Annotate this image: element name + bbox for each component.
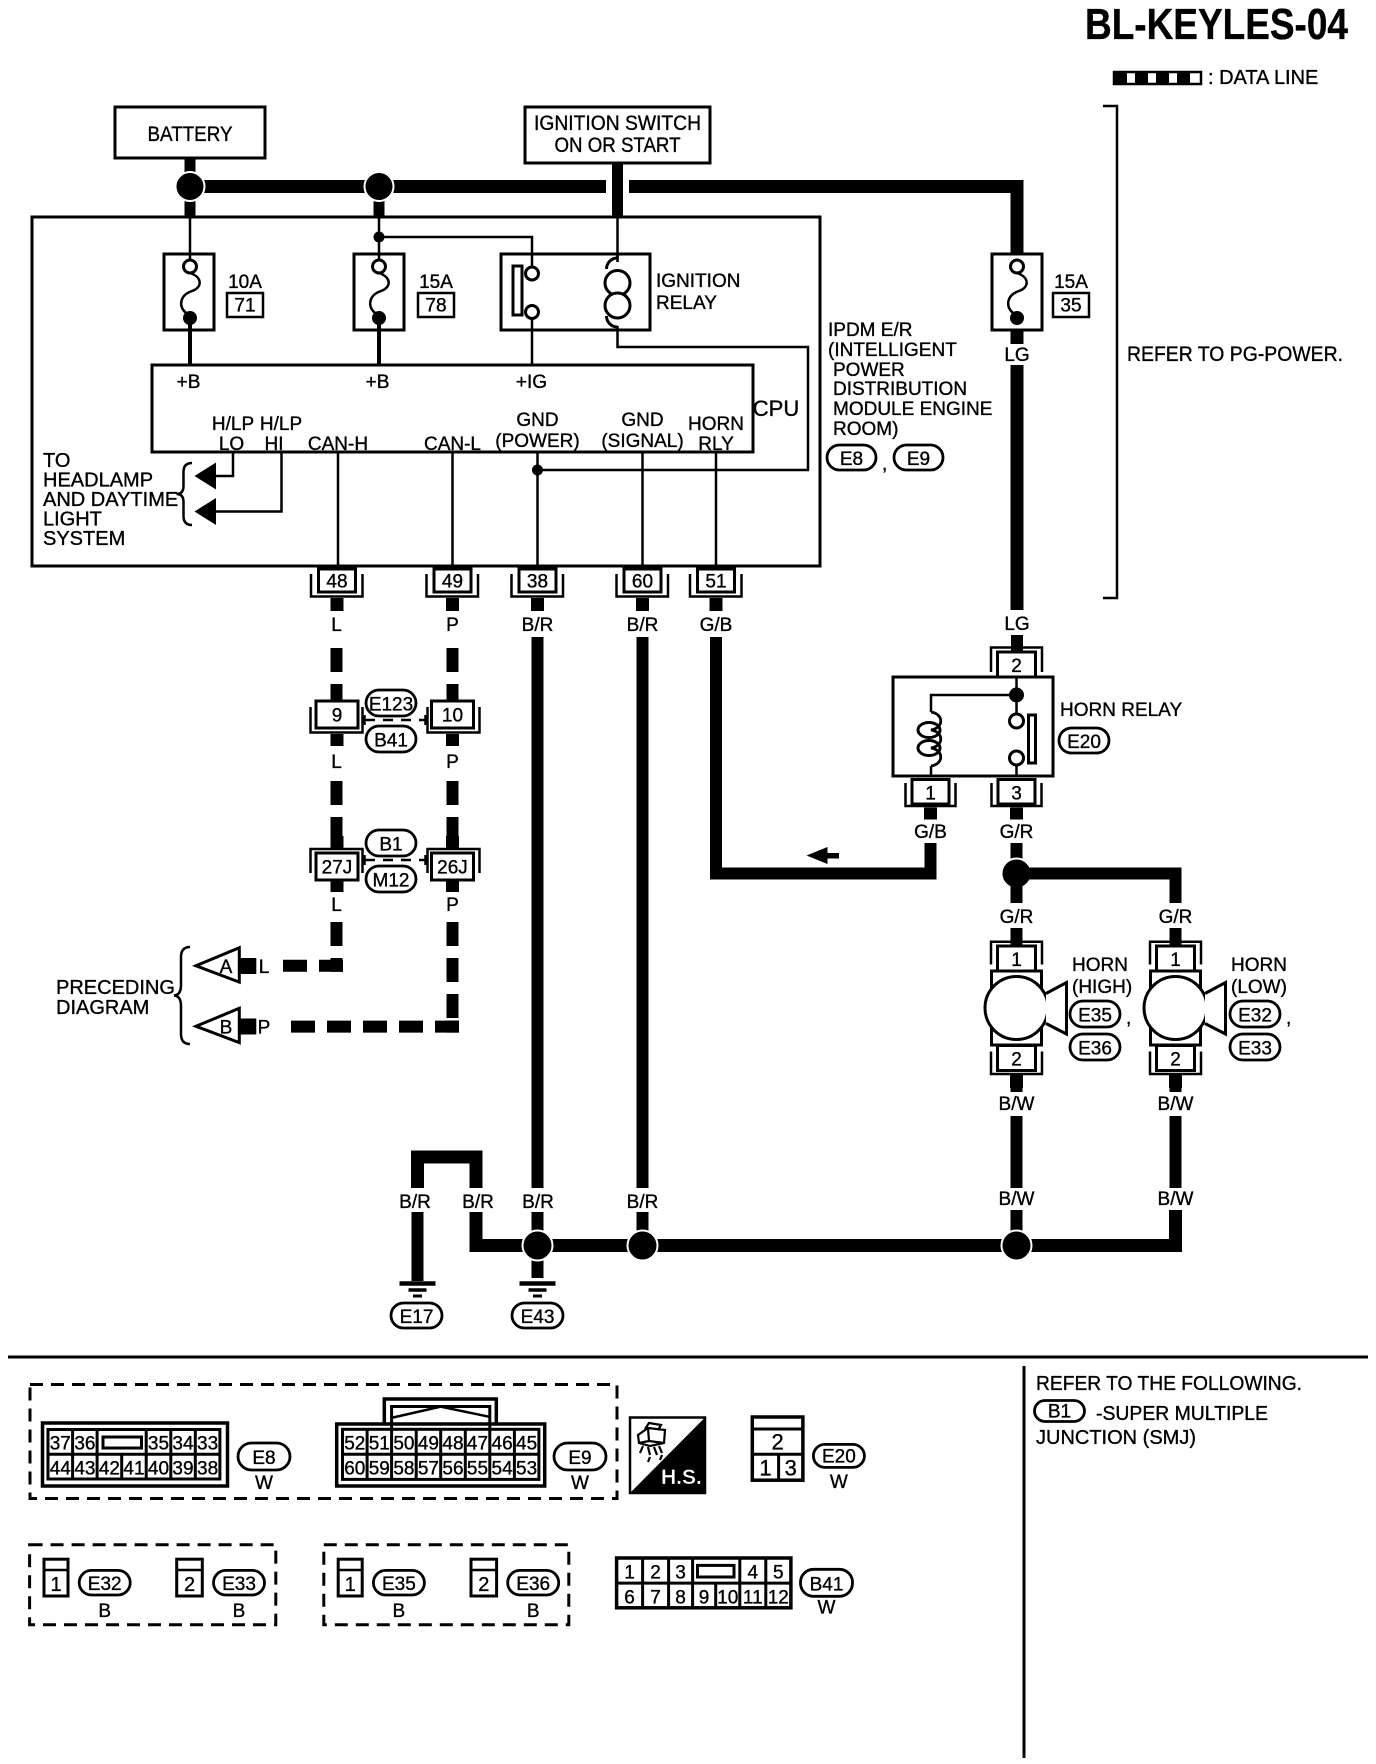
- connector oval E35: [1070, 1001, 1120, 1027]
- svg-text:B1: B1: [379, 835, 402, 856]
- svg-text:1: 1: [50, 1574, 61, 1596]
- svg-text:4: 4: [748, 1563, 759, 1584]
- svg-text:1: 1: [1011, 950, 1022, 971]
- svg-text:2: 2: [1011, 656, 1022, 677]
- wire main power bus left: [190, 180, 606, 193]
- wire G/R stub horn high: [1011, 928, 1023, 946]
- connector 9 (E123/B41): [311, 701, 363, 746]
- connector pin 2 horn relay: [991, 648, 1042, 678]
- svg-text:E32: E32: [1238, 1006, 1272, 1027]
- svg-text:W: W: [830, 1472, 848, 1493]
- brace preceding diagram: [174, 947, 190, 1044]
- svg-text:H/LP: H/LP: [260, 414, 302, 435]
- svg-text:2: 2: [771, 1430, 783, 1455]
- connector oval E123: [366, 690, 416, 716]
- svg-text:REFER TO PG-POWER.: REFER TO PG-POWER.: [1127, 343, 1343, 366]
- wire feed to fuse 71: [189, 217, 192, 260]
- svg-text:+B: +B: [177, 372, 201, 393]
- svg-text:52: 52: [344, 1434, 365, 1455]
- wire CAN-H pin to connector 48: [337, 452, 340, 566]
- connector oval E9 (face): [554, 1443, 606, 1494]
- svg-text:HORN: HORN: [1231, 955, 1287, 976]
- svg-text:(SIGNAL): (SIGNAL): [601, 431, 683, 452]
- svg-text:34: 34: [172, 1434, 194, 1455]
- svg-text:27J: 27J: [322, 858, 353, 879]
- svg-text:+B: +B: [366, 372, 390, 393]
- junction dot horn high B/W: [1002, 1231, 1032, 1261]
- wire GND SIGNAL pin to connector 60: [641, 452, 644, 566]
- connector pin 38: [512, 569, 564, 611]
- wire ignition switch to relay coil: [616, 217, 619, 262]
- svg-text:57: 57: [418, 1459, 439, 1480]
- fuse number box 71: [227, 293, 263, 317]
- wire G/R below junction: [1011, 881, 1023, 903]
- svg-text:10: 10: [717, 1588, 738, 1609]
- svg-text:1: 1: [759, 1456, 771, 1481]
- wire B/W horn high upper: [1011, 1088, 1023, 1092]
- svg-text:REFER TO THE FOLLOWING.: REFER TO THE FOLLOWING.: [1036, 1373, 1302, 1395]
- svg-text:58: 58: [393, 1459, 414, 1480]
- junction dot G/R: [1002, 859, 1032, 889]
- svg-text:5: 5: [773, 1563, 784, 1584]
- svg-text:78: 78: [425, 296, 446, 317]
- connector oval E36 (face): [508, 1570, 559, 1622]
- svg-text:8: 8: [675, 1588, 686, 1609]
- svg-text:L: L: [331, 752, 342, 773]
- svg-text:B/W: B/W: [999, 1094, 1035, 1115]
- svg-text:P: P: [258, 1018, 271, 1039]
- svg-text:(LOW): (LOW): [1231, 977, 1287, 998]
- svg-text:11: 11: [743, 1588, 763, 1609]
- svg-text:10A: 10A: [228, 272, 262, 293]
- svg-text:L: L: [331, 895, 342, 916]
- wire G/R stub horn low: [1170, 928, 1182, 946]
- svg-text:E36: E36: [516, 1574, 550, 1595]
- svg-text:E35: E35: [1078, 1006, 1112, 1027]
- connector oval E43: [512, 1303, 563, 1328]
- connector face E32 pin1: [44, 1559, 68, 1596]
- svg-text:E9: E9: [907, 449, 930, 470]
- svg-text:E123: E123: [369, 695, 413, 716]
- svg-text:47: 47: [467, 1434, 488, 1455]
- data line L upper: [331, 648, 343, 701]
- connector oval E20 (relay): [1059, 728, 1109, 753]
- svg-text:E20: E20: [1067, 732, 1101, 753]
- horn (low): [1144, 942, 1226, 1088]
- arrow on G/B wire: [807, 847, 828, 864]
- wire HORN RLY pin to connector 51: [715, 452, 718, 566]
- SECTION: IPDM E/R outer box: [32, 217, 820, 566]
- horn (high): [985, 942, 1067, 1088]
- connector pin 1 horn relay: [906, 780, 956, 820]
- svg-text:3: 3: [1011, 784, 1022, 805]
- svg-text:35: 35: [148, 1434, 169, 1455]
- svg-text:G/R: G/R: [1000, 822, 1034, 843]
- svg-text:,: ,: [1286, 1008, 1291, 1029]
- connector 10 (E123/B41): [428, 701, 480, 746]
- connector oval E33 (face): [214, 1570, 265, 1622]
- brace headlamp: [177, 463, 193, 525]
- svg-text:H.S.: H.S.: [661, 1466, 702, 1489]
- connector oval E35 (face): [373, 1570, 424, 1622]
- wire GND POWER pin to connector 38: [536, 452, 539, 566]
- svg-text:B: B: [220, 1018, 233, 1039]
- ground E17: [400, 1284, 436, 1297]
- battery B+ box: [115, 107, 265, 158]
- svg-text:E9: E9: [568, 1448, 591, 1469]
- label TO HEADLAMP AND DAYTIME LIGHT SYSTEM: [43, 450, 178, 550]
- fuse number box 78: [418, 293, 454, 317]
- svg-text:SYSTEM: SYSTEM: [43, 528, 125, 550]
- svg-text:9: 9: [699, 1588, 710, 1609]
- ignition switch box: [525, 107, 710, 163]
- svg-text:B/R: B/R: [462, 1192, 494, 1213]
- wire main power bus right with corner to fuse 35: [629, 187, 1017, 255]
- connector oval B41 (face): [801, 1569, 853, 1618]
- svg-text:E8: E8: [840, 449, 863, 470]
- svg-text:CPU: CPU: [753, 396, 799, 421]
- svg-text:LO: LO: [219, 434, 244, 455]
- svg-text:DISTRIBUTION: DISTRIBUTION: [833, 379, 967, 400]
- wire LG stub below fuse 35: [1011, 330, 1024, 344]
- svg-text:P: P: [446, 752, 459, 773]
- svg-text:G/R: G/R: [1159, 907, 1193, 928]
- svg-text:: DATA LINE: : DATA LINE: [1208, 67, 1318, 89]
- label IPDM E/R text block: [828, 320, 992, 440]
- svg-text:-SUPER MULTIPLE: -SUPER MULTIPLE: [1096, 1403, 1268, 1425]
- fuse 15A 35: [992, 254, 1042, 330]
- svg-text:60: 60: [344, 1459, 365, 1480]
- wire B/W horn low middle: [1170, 1116, 1182, 1188]
- dashed group box E32/E33: [30, 1545, 276, 1625]
- connector oval B1 (SMJ note): [1035, 1401, 1085, 1423]
- svg-text:B: B: [393, 1601, 406, 1622]
- svg-text:51: 51: [369, 1434, 390, 1455]
- connector oval E17: [391, 1303, 442, 1328]
- svg-text:W: W: [571, 1473, 589, 1494]
- svg-text:71: 71: [234, 296, 255, 317]
- svg-text:B: B: [98, 1601, 111, 1622]
- fuse number box 35: [1053, 293, 1089, 317]
- connector oval E9: [894, 445, 943, 470]
- wire H/LP HI: [214, 452, 282, 512]
- junction dot E43: [523, 1231, 553, 1261]
- svg-text:6: 6: [624, 1588, 635, 1609]
- svg-text:43: 43: [74, 1459, 95, 1480]
- svg-text:B41: B41: [374, 731, 408, 752]
- dashed group box E8/E9: [30, 1385, 617, 1499]
- ignition relay: [501, 254, 650, 330]
- connector oval E32: [1230, 1001, 1280, 1027]
- CPU box: [152, 365, 753, 452]
- svg-text:35: 35: [1060, 296, 1081, 317]
- connector face E9: [337, 1399, 545, 1486]
- svg-text:3: 3: [785, 1456, 797, 1481]
- svg-text:15A: 15A: [419, 272, 453, 293]
- wire G/B 51 to horn relay pin1: [716, 637, 931, 874]
- svg-text:3: 3: [675, 1563, 686, 1584]
- connector pin 3 horn relay: [992, 780, 1042, 820]
- svg-text:RELAY: RELAY: [656, 293, 717, 314]
- wire B/W horn high middle: [1011, 1116, 1023, 1188]
- svg-text:49: 49: [442, 572, 463, 593]
- connector oval E20 (face): [813, 1444, 864, 1493]
- connector pin 60: [617, 569, 669, 611]
- connector face E33 pin2: [177, 1559, 203, 1596]
- svg-text:LG: LG: [1004, 614, 1029, 635]
- svg-text:E36: E36: [1078, 1039, 1112, 1060]
- svg-text:A: A: [220, 957, 233, 978]
- svg-text:G/B: G/B: [700, 615, 733, 636]
- data line P upper: [447, 648, 459, 701]
- wire relay contact to +IG: [531, 318, 534, 365]
- wire E17 ground drop: [412, 1212, 424, 1281]
- svg-text:BL-KEYLES-04: BL-KEYLES-04: [1085, 0, 1348, 49]
- svg-text:B/W: B/W: [1158, 1094, 1194, 1115]
- data line P lower with corner: [447, 922, 459, 1021]
- svg-text:48: 48: [442, 1434, 463, 1455]
- data line P middle: [447, 781, 459, 853]
- svg-text:E17: E17: [400, 1307, 434, 1328]
- svg-text:JUNCTION (SMJ): JUNCTION (SMJ): [1036, 1427, 1196, 1449]
- svg-text:15A: 15A: [1054, 272, 1088, 293]
- junction dot on GND POWER wire: [532, 465, 543, 476]
- divider vertical bottom right: [1023, 1366, 1026, 1758]
- wire fuse78 to +B: [377, 324, 381, 365]
- wire G/R branch to horn low: [1022, 874, 1176, 904]
- junction battery dot: [176, 172, 205, 201]
- svg-text:1: 1: [925, 784, 936, 805]
- connector 27J (SMJ): [311, 849, 363, 892]
- svg-text:G/B: G/B: [914, 822, 947, 843]
- connector oval E33: [1230, 1034, 1280, 1060]
- dashed group box E35/E36: [324, 1545, 569, 1625]
- svg-text:38: 38: [197, 1459, 218, 1480]
- svg-text:56: 56: [442, 1459, 463, 1480]
- svg-text:1: 1: [1170, 950, 1181, 971]
- svg-text:P: P: [446, 615, 459, 636]
- connector oval B41 (9-10): [366, 726, 416, 752]
- connector face E35 pin1: [338, 1559, 362, 1596]
- svg-text:51: 51: [705, 572, 726, 593]
- junction fuse-78 bus dot: [365, 172, 394, 201]
- svg-text:2: 2: [478, 1574, 489, 1596]
- triangle node B: [196, 1008, 256, 1042]
- wire fuse71 to +B: [188, 324, 192, 365]
- svg-text:LG: LG: [1004, 345, 1029, 366]
- gooseneck wire E17 to ground bus: [418, 1157, 477, 1188]
- fuse 15A 78: [354, 254, 404, 330]
- svg-text:2: 2: [1170, 1050, 1181, 1071]
- arrow to headlamp H/LP LO: [195, 463, 217, 490]
- svg-text:12: 12: [768, 1588, 789, 1609]
- wire B/W horn low upper: [1170, 1088, 1182, 1092]
- svg-text:44: 44: [50, 1459, 72, 1480]
- wire battery stub: [185, 158, 196, 217]
- fuse 10A 71: [164, 254, 214, 330]
- svg-text:ON OR START: ON OR START: [555, 134, 681, 157]
- svg-text:W: W: [818, 1598, 836, 1619]
- connector oval M12: [366, 866, 416, 892]
- wire B/R 60 long: [637, 637, 649, 1188]
- svg-text:33: 33: [197, 1434, 218, 1455]
- svg-text:B: B: [233, 1601, 246, 1622]
- svg-text:2: 2: [650, 1563, 661, 1584]
- svg-text:9: 9: [332, 706, 343, 727]
- wire relay coil to GND(POWER) branch: [543, 330, 808, 470]
- svg-text:E35: E35: [382, 1574, 416, 1595]
- wire fuse 78 feed stub: [374, 187, 385, 218]
- svg-text:1: 1: [345, 1574, 356, 1596]
- triangle node A: [196, 948, 256, 982]
- svg-text:55: 55: [467, 1459, 488, 1480]
- svg-text:(INTELLIGENT: (INTELLIGENT: [828, 340, 957, 361]
- svg-text:CAN-H: CAN-H: [308, 434, 368, 455]
- data line L lower with corner: [331, 922, 343, 960]
- svg-text:E43: E43: [521, 1307, 555, 1328]
- connector oval E32 (face): [79, 1570, 130, 1622]
- svg-text:10: 10: [442, 706, 463, 727]
- svg-text:,: ,: [1126, 1008, 1131, 1029]
- svg-text:B/W: B/W: [1158, 1189, 1194, 1210]
- svg-text:GND: GND: [516, 410, 558, 431]
- tie line 9-10: [365, 715, 426, 725]
- svg-text:B/R: B/R: [522, 615, 554, 636]
- svg-text:GND: GND: [621, 410, 663, 431]
- wire CAN-L pin to connector 49: [451, 452, 454, 566]
- wire LG vertical: [1011, 365, 1024, 610]
- svg-text:,: ,: [882, 454, 887, 475]
- wire B/W horn high lower: [1011, 1210, 1023, 1246]
- connector pin 51: [690, 569, 742, 611]
- svg-text:E33: E33: [1238, 1039, 1272, 1060]
- connector face B41: [617, 1558, 791, 1609]
- legend data-line bar: [1114, 72, 1201, 84]
- svg-text:36: 36: [74, 1434, 95, 1455]
- svg-text:42: 42: [99, 1459, 120, 1480]
- svg-text:B/R: B/R: [627, 615, 659, 636]
- svg-text:E33: E33: [222, 1574, 256, 1595]
- svg-text:+IG: +IG: [516, 372, 547, 393]
- svg-text:40: 40: [148, 1459, 169, 1480]
- svg-text:1: 1: [624, 1563, 635, 1584]
- svg-text:BATTERY: BATTERY: [148, 123, 233, 146]
- svg-text:B/R: B/R: [522, 1192, 554, 1213]
- svg-text:45: 45: [516, 1434, 537, 1455]
- svg-text:HORN RELAY: HORN RELAY: [1060, 700, 1182, 721]
- svg-text:54: 54: [492, 1459, 514, 1480]
- wire feed to fuse 78: [378, 217, 381, 260]
- wire B/R 38 long: [532, 637, 544, 1188]
- ground E43: [520, 1284, 556, 1297]
- svg-text:41: 41: [123, 1459, 144, 1480]
- connector face E8: [43, 1423, 228, 1486]
- wire E43 ground drop: [532, 1245, 544, 1278]
- svg-text:60: 60: [632, 572, 653, 593]
- svg-text:B41: B41: [810, 1575, 844, 1596]
- separator line: [8, 1356, 1368, 1359]
- svg-text:MODULE ENGINE: MODULE ENGINE: [833, 399, 992, 420]
- svg-text:39: 39: [172, 1459, 193, 1480]
- svg-text:2: 2: [1011, 1050, 1022, 1071]
- svg-text:G/R: G/R: [1000, 907, 1034, 928]
- svg-text:HORN: HORN: [688, 414, 744, 435]
- svg-text:48: 48: [326, 572, 347, 593]
- svg-text:E32: E32: [88, 1574, 122, 1595]
- svg-text:(POWER): (POWER): [495, 431, 579, 452]
- wire 60 lower segment: [637, 1212, 649, 1246]
- connector oval E8 (face): [238, 1443, 290, 1494]
- bracket REFER TO PG-POWER: [1103, 106, 1117, 598]
- svg-text:26J: 26J: [437, 858, 468, 879]
- svg-text:B/W: B/W: [999, 1189, 1035, 1210]
- svg-text:P: P: [446, 895, 459, 916]
- svg-text:M12: M12: [373, 871, 410, 892]
- svg-text:RLY: RLY: [698, 434, 734, 455]
- ground bus bottom: [476, 1210, 1176, 1246]
- wire LG stub to horn relay pin 2: [1011, 635, 1023, 652]
- junction dot 60: [628, 1231, 658, 1261]
- wire 38 lower segment: [532, 1212, 544, 1246]
- connector oval E36: [1070, 1034, 1120, 1060]
- svg-text:(HIGH): (HIGH): [1072, 977, 1132, 998]
- svg-text:IPDM E/R: IPDM E/R: [828, 320, 912, 341]
- connector oval B1: [366, 830, 416, 856]
- connector pin 49: [427, 569, 479, 611]
- svg-text:2: 2: [184, 1574, 195, 1596]
- svg-text:L: L: [259, 957, 270, 978]
- svg-text:H/LP: H/LP: [212, 414, 254, 435]
- svg-text:38: 38: [527, 572, 548, 593]
- svg-text:ROOM): ROOM): [833, 419, 898, 440]
- svg-text:HI: HI: [265, 434, 284, 455]
- wire ignition switch stub: [612, 163, 623, 217]
- arrow to headlamp H/LP HI: [195, 498, 217, 525]
- svg-text:53: 53: [516, 1459, 537, 1480]
- svg-text:50: 50: [393, 1434, 414, 1455]
- tie line 27J-26J: [365, 855, 426, 865]
- svg-text:E8: E8: [252, 1448, 275, 1469]
- svg-text:IGNITION: IGNITION: [656, 271, 740, 292]
- svg-text:POWER: POWER: [833, 360, 905, 381]
- connector pin 48: [311, 569, 363, 611]
- connector face E20: [752, 1417, 803, 1481]
- data line L middle: [331, 781, 343, 853]
- svg-text:HORN: HORN: [1072, 955, 1128, 976]
- svg-text:IGNITION SWITCH: IGNITION SWITCH: [534, 112, 701, 135]
- svg-text:46: 46: [492, 1434, 513, 1455]
- svg-text:DIAGRAM: DIAGRAM: [56, 997, 149, 1019]
- connector oval E8: [827, 445, 876, 470]
- junction dot fuse78/relay branch: [374, 232, 385, 243]
- connector face E36 pin2: [471, 1559, 497, 1596]
- svg-text:E20: E20: [822, 1447, 856, 1468]
- connector 26J (SMJ): [428, 849, 480, 892]
- svg-text:B/R: B/R: [399, 1192, 431, 1213]
- wire G/R relay to junction: [1011, 843, 1023, 866]
- svg-text:B1: B1: [1048, 1402, 1071, 1423]
- wire branch to ignition relay contact: [379, 237, 532, 267]
- wire H/LP LO: [214, 452, 233, 476]
- svg-text:PRECEDING: PRECEDING: [56, 977, 175, 999]
- horn relay E20: [893, 677, 1053, 776]
- svg-text:W: W: [255, 1473, 273, 1494]
- H.S. mark: [630, 1418, 705, 1494]
- svg-text:CAN-L: CAN-L: [424, 434, 481, 455]
- svg-text:37: 37: [50, 1434, 71, 1455]
- svg-text:B: B: [527, 1601, 540, 1622]
- svg-text:7: 7: [650, 1588, 661, 1609]
